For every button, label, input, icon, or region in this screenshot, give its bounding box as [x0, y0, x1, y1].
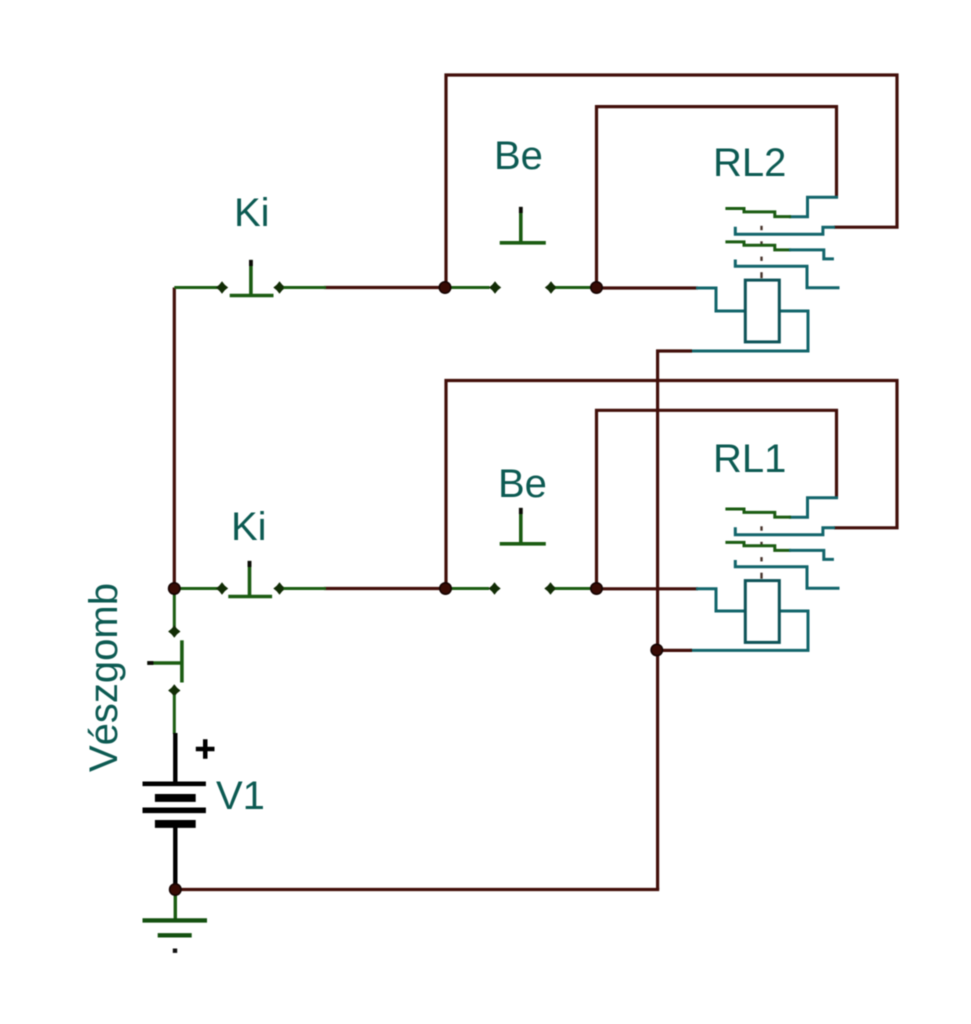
relay RL1 contact rail 2 — [735, 560, 839, 588]
relay RL2 coil — [745, 280, 779, 342]
wire RL2 outer loop (top) — [446, 75, 897, 288]
wire junction to Vészgomb green — [173, 589, 176, 628]
wire node D to RL1 coil — [597, 587, 699, 590]
push-button Ki1 plunger — [249, 260, 253, 296]
battery V1 plate 4 — [155, 820, 196, 828]
junction node C — [440, 583, 451, 594]
svg-text:RL1: RL1 — [713, 437, 786, 481]
relay RL1 contact 2 fixed terminal — [789, 550, 834, 559]
battery V1 positive lead — [173, 733, 177, 782]
battery V1 plate 1 — [143, 781, 206, 786]
wire Ki1 right lead green — [284, 286, 327, 289]
relay RL2 mechanical link dashes — [760, 226, 762, 230]
relay RL2 contact 1 fixed terminal — [789, 197, 838, 217]
svg-text:Ki: Ki — [234, 191, 270, 235]
relay RL2 contact rail 2 — [735, 260, 839, 288]
wire center vertical rail — [656, 350, 659, 890]
relay RL2 contact 2 common rail — [735, 227, 835, 235]
junction node A — [439, 282, 450, 293]
relay RL1 contact 1 blade — [725, 509, 791, 517]
wire RL2 coil output teal — [690, 311, 808, 351]
wire node B to RL2 coil — [597, 286, 699, 289]
relay RL2 contact 1 blade — [725, 209, 791, 217]
wire RL2 coil to center rail — [656, 349, 692, 352]
arrow into Be1 right — [545, 281, 557, 293]
push-button Ki2 bar — [228, 595, 272, 599]
svg-text:V1: V1 — [216, 774, 265, 818]
push-button Be1 plunger cap — [519, 207, 523, 213]
push-button Vészgomb bar — [180, 640, 184, 682]
wire RL1 coil lead-in teal — [696, 589, 745, 611]
push-button Be1 plunger — [519, 207, 523, 242]
push-button Ki2 plunger — [248, 561, 252, 597]
arrow into Vészgomb top — [168, 625, 180, 637]
wire Be2 to node D green — [555, 587, 597, 590]
relay RL1 contact 1 fixed terminal — [789, 498, 838, 518]
arrow into Vészgomb bottom — [168, 684, 180, 696]
svg-text:Vészgomb: Vészgomb — [82, 583, 126, 772]
relay RL1 contact 2 common rail — [735, 527, 835, 535]
wire RL1 coil output teal — [690, 611, 808, 650]
push-button Ki1 plunger cap — [249, 260, 253, 266]
plus sign — [196, 739, 215, 759]
wire bottom return — [175, 888, 659, 891]
junction node E — [169, 583, 180, 594]
arrow into Ki1 right — [273, 281, 285, 293]
wire RL1 inner loop — [597, 410, 837, 588]
arrow into Ki2 right — [273, 582, 285, 594]
push-button Vészgomb plunger cap — [147, 661, 153, 665]
wire Ki2 right lead green — [284, 587, 327, 590]
ground stem green — [174, 893, 177, 919]
push-button Ki2 plunger cap — [248, 561, 252, 567]
junction node B — [591, 282, 602, 293]
wire left rail vertical — [173, 288, 176, 589]
svg-text:Be: Be — [494, 134, 543, 178]
arrow into Ki2 left — [216, 582, 228, 594]
push-button Ki1 bar — [230, 294, 274, 298]
push-button Be2 plunger cap — [519, 508, 523, 514]
battery V1 negative lead — [173, 826, 177, 890]
ground dot — [173, 949, 177, 953]
relay RL1 contact 2 blade — [725, 542, 791, 550]
battery V1 plate 2 — [155, 794, 196, 802]
push-button Be2 bar — [500, 542, 546, 546]
junction node F — [651, 644, 662, 655]
wire RL2 coil lead-in teal — [696, 288, 745, 311]
wire RL2 inner loop — [597, 107, 837, 288]
junction node D — [591, 583, 602, 594]
arrow into Ki1 left — [216, 281, 228, 293]
wire Vészgomb to battery green — [173, 695, 176, 734]
wire Ki2 to node C — [324, 587, 446, 590]
push-button Vészgomb plunger — [147, 661, 182, 665]
wire Ki1 to node A — [324, 286, 445, 289]
svg-text:RL2: RL2 — [713, 141, 786, 185]
wire Be1 to node B green — [556, 286, 597, 289]
junction node G — [170, 884, 181, 895]
relay RL1 coil — [745, 581, 779, 643]
wire node A to Be1 green — [445, 286, 490, 289]
arrow into Be2 left — [488, 582, 500, 594]
wire Ki2 left lead green — [174, 587, 218, 590]
svg-text:Be: Be — [498, 462, 547, 506]
push-button Be2 plunger — [519, 508, 523, 543]
relay RL1 mechanical link dashes — [760, 526, 762, 530]
push-button Be1 bar — [500, 241, 546, 245]
relay RL2 contact 2 fixed terminal — [789, 250, 834, 259]
wire node C to Be2 green — [446, 587, 490, 590]
wire RL1 outer loop — [446, 381, 897, 589]
wire Ki1 left lead green — [174, 286, 218, 289]
relay RL2 contact 2 blade — [725, 242, 791, 250]
wire RL1 coil to center node — [657, 649, 692, 652]
svg-text:Ki: Ki — [231, 505, 267, 549]
ground bar 2 — [158, 933, 192, 937]
ground bar 1 — [143, 918, 208, 922]
arrow into Be1 left — [489, 281, 501, 293]
battery V1 plate 3 — [143, 807, 206, 813]
arrow into Be2 right — [544, 582, 556, 594]
